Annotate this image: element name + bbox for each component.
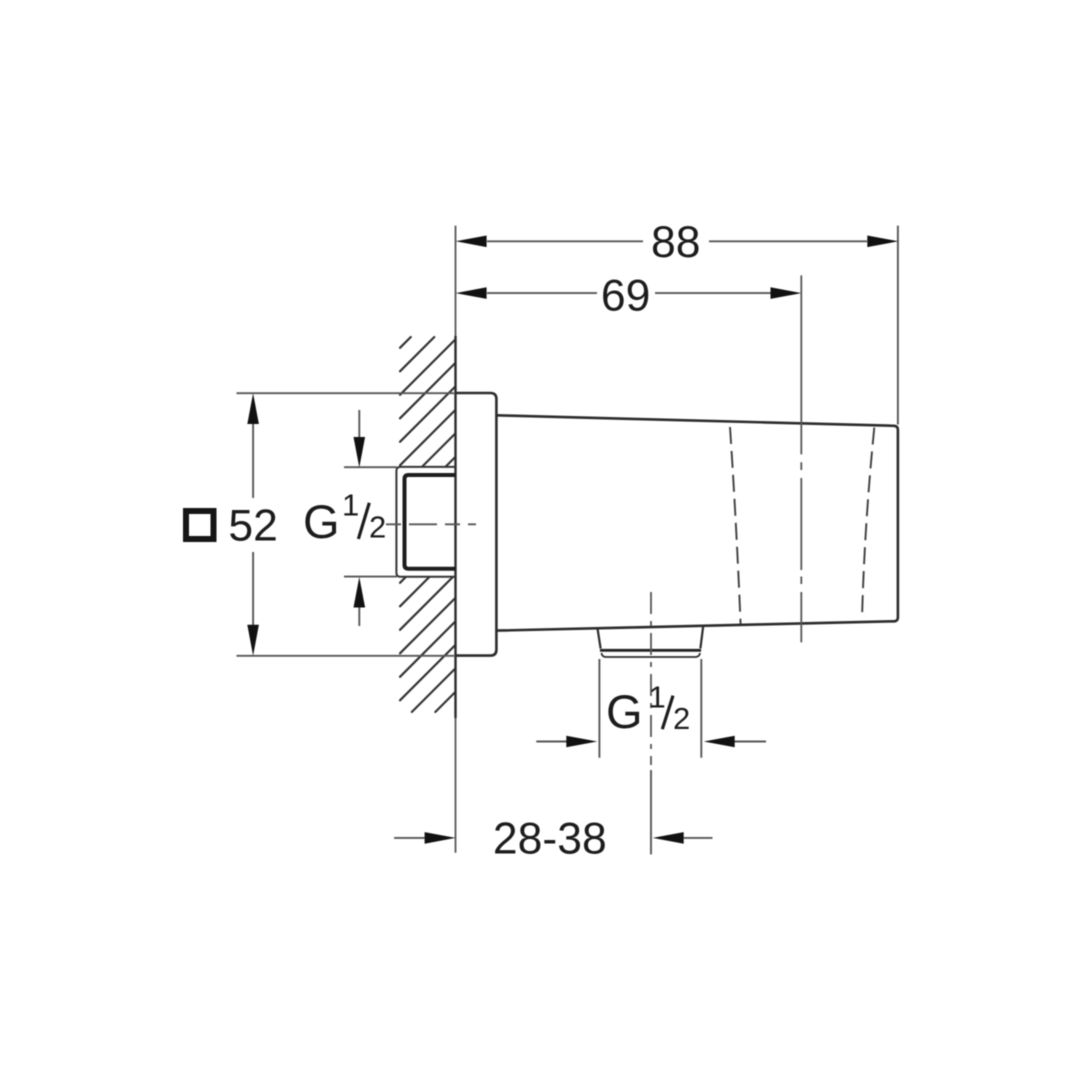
svg-text:52: 52 — [228, 502, 278, 551]
inlet thread outer profile — [396, 467, 455, 577]
body hidden edge (dashed, left) — [730, 427, 741, 624]
svg-text:G: G — [303, 495, 340, 548]
inlet thread core (thick) — [405, 475, 456, 569]
dimension 69 — [487, 292, 771, 294]
svg-text:88: 88 — [651, 218, 701, 267]
square section symbol — [186, 511, 214, 539]
outlet stub (collar) — [598, 626, 704, 648]
outlet label G 1/2 — [606, 680, 690, 739]
inlet centerline — [386, 523, 476, 525]
outlet thread extension lines — [599, 659, 701, 758]
body hidden edge (dashed, right) — [862, 428, 874, 619]
inlet thread height dimension arrows — [358, 410, 360, 626]
inlet label G 1/2 — [303, 487, 386, 548]
svg-text:1: 1 — [342, 487, 359, 522]
svg-text:2: 2 — [673, 701, 690, 736]
wall surface line — [455, 226, 457, 853]
outlet centerline — [650, 592, 652, 765]
svg-text:G: G — [606, 685, 643, 738]
flange (wall plate) — [456, 393, 497, 656]
svg-text:1: 1 — [649, 680, 666, 715]
dimension 52 — [237, 393, 455, 656]
dimension 28-38 — [394, 770, 712, 854]
svg-text:28-38: 28-38 — [493, 815, 607, 864]
wall hatching — [400, 337, 455, 712]
svg-text:2: 2 — [369, 509, 386, 544]
svg-text:69: 69 — [601, 272, 651, 321]
body (holder cone) outline — [496, 415, 898, 630]
inlet thread extension lines — [344, 467, 397, 576]
dimension 88 — [487, 226, 898, 425]
outlet width dimension arrows — [536, 741, 766, 743]
69 extension / holder centerline — [800, 275, 802, 642]
